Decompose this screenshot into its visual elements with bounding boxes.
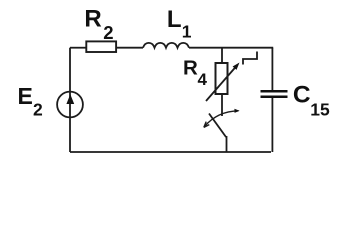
source E2 circle: [57, 92, 83, 118]
svg-text:4: 4: [198, 70, 208, 89]
wire middle branch upper stub: [221, 48, 223, 63]
svg-text:L: L: [167, 6, 182, 33]
inductor L1: [143, 43, 189, 48]
svg-text:R: R: [84, 5, 101, 32]
wire right vertical upper: [271, 48, 273, 91]
wire left vertical: [69, 48, 71, 152]
wire bottom rail: [70, 151, 271, 153]
switch blade: [209, 114, 226, 138]
svg-text:R: R: [183, 57, 198, 80]
resistor R2: [86, 41, 116, 52]
svg-text:2: 2: [103, 22, 113, 43]
wire switch bottom stub: [226, 136, 228, 152]
resistor R4 body: [216, 63, 228, 94]
wire R2 to L1: [117, 47, 144, 49]
svg-text:C: C: [293, 82, 311, 109]
capacitor C15 top plate: [261, 90, 288, 93]
wire R4 to switch: [221, 94, 223, 116]
svg-text:2: 2: [33, 100, 43, 120]
source E2 arrow head: [66, 94, 74, 104]
resistor R4 step mark: [243, 52, 257, 65]
capacitor C15 bottom plate: [261, 96, 288, 99]
wire L1 to right corner: [189, 47, 273, 49]
wire top-left segment: [70, 47, 86, 49]
resistor R4 adjust arrow head: [233, 63, 240, 70]
switch motion arc: [205, 111, 239, 127]
svg-text:1: 1: [182, 22, 192, 42]
resistor R4 adjust arrow shaft: [206, 66, 237, 101]
svg-text:E: E: [18, 83, 33, 109]
wire right vertical lower: [271, 98, 273, 152]
svg-text:15: 15: [310, 100, 330, 120]
switch arc right arrowhead: [234, 109, 239, 113]
switch arc left arrowhead: [204, 122, 210, 128]
